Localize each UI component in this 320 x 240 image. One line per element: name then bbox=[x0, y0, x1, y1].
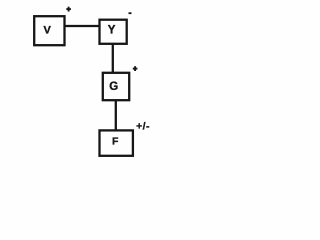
wire V to Y bbox=[65, 25, 100, 27]
svg-text:F: F bbox=[112, 136, 119, 148]
wire G to F bbox=[115, 100, 117, 130]
block G bbox=[103, 73, 129, 100]
block V bbox=[34, 16, 64, 45]
polarity plus at G input bbox=[133, 66, 138, 71]
block F bbox=[100, 130, 133, 155]
polarity minus at Y bbox=[129, 12, 132, 14]
svg-text:V: V bbox=[44, 24, 52, 36]
svg-text:G: G bbox=[109, 81, 118, 93]
block Y bbox=[100, 20, 127, 44]
svg-text:Y: Y bbox=[108, 25, 116, 37]
wire Y to G bbox=[112, 44, 114, 73]
polarity plus at V output bbox=[66, 7, 71, 12]
svg-text:+/-: +/- bbox=[136, 120, 150, 132]
